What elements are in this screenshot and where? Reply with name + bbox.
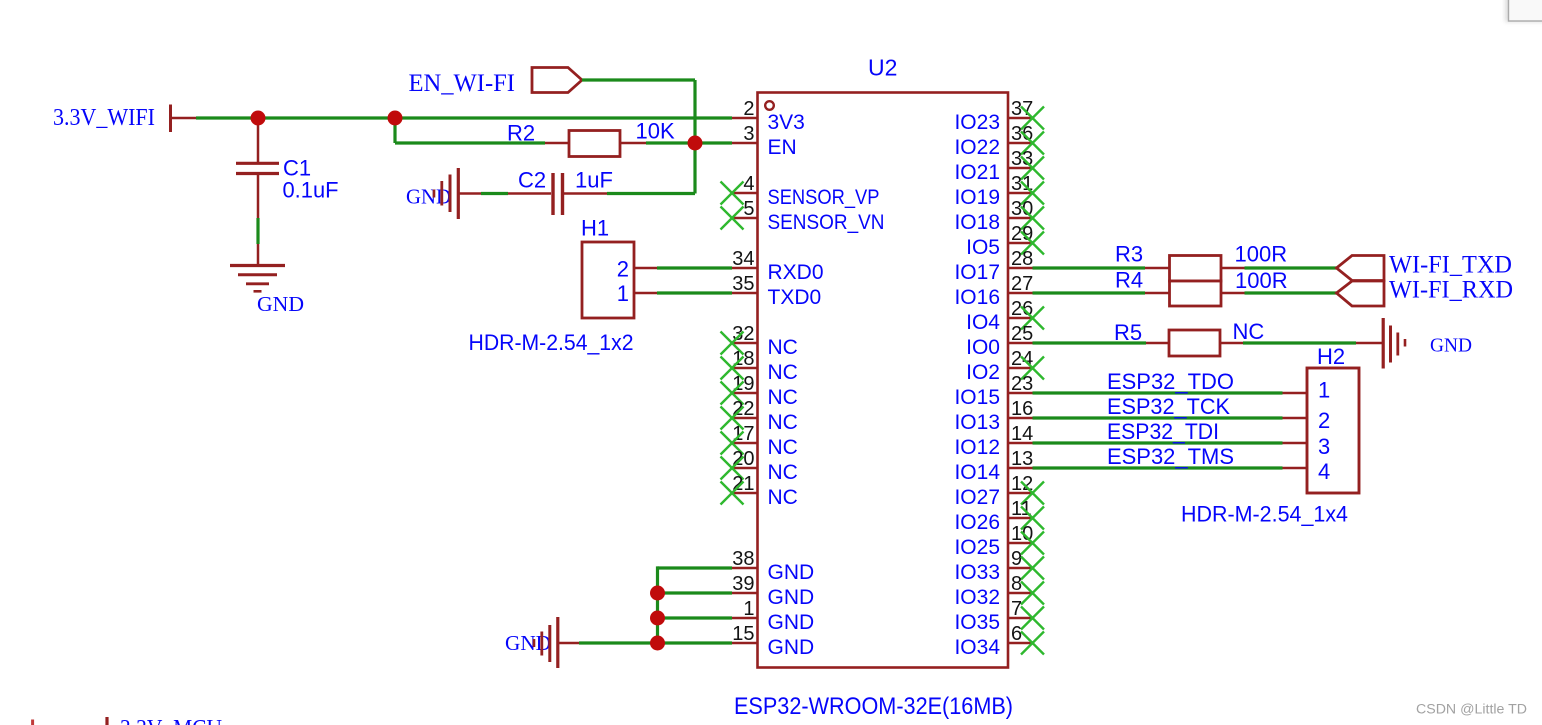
port WI-FI_TXD <box>1337 251 1513 280</box>
svg-text:NC: NC <box>768 486 798 509</box>
junction at R2 tap <box>388 111 403 126</box>
svg-text:22: 22 <box>732 398 754 420</box>
resistor R4 <box>1170 281 1222 306</box>
IC U2 ESP32-WROOM-32E body <box>758 93 1009 668</box>
wire U2 to H2 net ESP32_TDI <box>1033 441 1308 444</box>
wire R3 to port WI-FI_TXD <box>1221 267 1337 270</box>
svg-text:IO33: IO33 <box>954 561 1000 584</box>
U2 pin 21 (NC) left <box>721 473 798 509</box>
U2 pin 32 (NC) left <box>721 323 798 359</box>
svg-text:WI-FI_RXD: WI-FI_RXD <box>1389 276 1513 303</box>
svg-text:ESP32_TCK: ESP32_TCK <box>1107 394 1230 419</box>
svg-text:ESP32-WROOM-32E(16MB): ESP32-WROOM-32E(16MB) <box>734 693 1013 720</box>
svg-text:R4: R4 <box>1115 268 1143 293</box>
svg-text:GND: GND <box>768 586 815 609</box>
U2 pin 30 (IO18) right <box>954 198 1044 234</box>
U2 pin 13 (IO14) right <box>954 448 1033 484</box>
svg-text:ESP32_TDO: ESP32_TDO <box>1107 369 1234 394</box>
U2 pin 15 (GND) left <box>732 623 814 659</box>
U2 pin 6 (IO34) right <box>954 623 1044 659</box>
U2 pin 34 (RXD0) left <box>732 248 824 284</box>
wire EN_WI-FI to EN node <box>582 80 695 143</box>
U2 pin 3 (EN) left <box>732 123 797 159</box>
U2 pin 28 (IO17) right <box>954 248 1033 284</box>
U2 pin 8 (IO32) right <box>954 573 1044 609</box>
junction GND bus pin15 <box>650 636 665 651</box>
U2 pin 16 (IO13) right <box>954 398 1033 434</box>
svg-text:TXD0: TXD0 <box>768 286 822 309</box>
port EN_WI-FI <box>409 68 583 98</box>
svg-text:CSDN @Little TD: CSDN @Little TD <box>1416 702 1527 717</box>
svg-text:HDR-M-2.54_1x4: HDR-M-2.54_1x4 <box>1181 502 1348 527</box>
svg-text:10K: 10K <box>636 119 675 144</box>
svg-text:GND: GND <box>768 611 815 634</box>
junction GND bus pin39 <box>650 586 665 601</box>
port WI-FI_RXD <box>1337 276 1514 306</box>
wire H1 pin1 to U2 TXD0 <box>634 292 732 295</box>
U2 pin 11 (IO26) right <box>954 498 1044 534</box>
svg-text:39: 39 <box>732 573 754 595</box>
U2 pin 25 (IO0) right <box>966 323 1033 359</box>
svg-text:9: 9 <box>1011 548 1022 570</box>
svg-text:6: 6 <box>1011 623 1022 645</box>
wire U2 to H2 net ESP32_TCK <box>1033 416 1308 419</box>
wire 3.3V_WIFI rail to U2 pin 2 <box>196 116 732 119</box>
svg-text:IO26: IO26 <box>954 511 1000 534</box>
U2 pin 36 (IO22) right <box>954 123 1044 159</box>
svg-text:0.1uF: 0.1uF <box>283 178 339 203</box>
svg-text:1: 1 <box>743 598 754 620</box>
wire C1 upper lead <box>257 122 260 163</box>
svg-text:IO22: IO22 <box>954 136 1000 159</box>
U2 pin 14 (IO12) right <box>954 423 1033 459</box>
svg-text:20: 20 <box>732 448 754 470</box>
U2 pin 19 (NC) left <box>721 373 798 409</box>
svg-text:27: 27 <box>1011 273 1033 295</box>
svg-text:RXD0: RXD0 <box>768 261 824 284</box>
svg-text:28: 28 <box>1011 248 1033 270</box>
svg-text:R3: R3 <box>1115 242 1143 267</box>
svg-text:1: 1 <box>1318 378 1330 403</box>
U2 pin 20 (NC) left <box>721 448 798 484</box>
wire U2 pin28 to R3 <box>1033 266 1170 269</box>
wire C1 to ground <box>257 175 260 265</box>
junction at C1 tap <box>251 111 266 126</box>
svg-text:IO14: IO14 <box>954 461 1000 484</box>
svg-text:C2: C2 <box>518 168 546 193</box>
svg-text:GND: GND <box>768 561 815 584</box>
U2 pin 18 (NC) left <box>721 348 798 384</box>
resistor R3 <box>1170 256 1222 282</box>
U2 pin 38 (GND) left <box>732 548 814 584</box>
wire U2 to H2 net ESP32_TDO <box>1033 391 1308 394</box>
svg-text:EN_WI-FI: EN_WI-FI <box>409 70 516 97</box>
wire GND bus vertical <box>656 566 659 643</box>
resistor R2 <box>569 131 620 157</box>
svg-text:16: 16 <box>1011 398 1033 420</box>
svg-text:3.3V_MCU: 3.3V_MCU <box>120 716 222 725</box>
junction EN node <box>688 136 703 151</box>
svg-text:7: 7 <box>1011 598 1022 620</box>
svg-text:15: 15 <box>732 623 754 645</box>
wire R5 to ground <box>1220 342 1382 345</box>
svg-text:2: 2 <box>743 98 754 120</box>
wire EN node down to C2 <box>564 143 695 194</box>
U2 pin 35 (TXD0) left <box>732 273 821 309</box>
svg-text:R5: R5 <box>1114 320 1142 345</box>
capacitor C2 <box>553 173 563 215</box>
svg-text:IO21: IO21 <box>954 161 1000 184</box>
svg-text:3V3: 3V3 <box>768 111 805 134</box>
svg-text:GND: GND <box>505 631 551 655</box>
svg-text:SENSOR_VN: SENSOR_VN <box>768 211 885 234</box>
svg-text:19: 19 <box>732 373 754 395</box>
svg-text:35: 35 <box>732 273 754 295</box>
svg-text:100R: 100R <box>1235 268 1288 293</box>
wire U2 pin39 GND <box>658 591 733 594</box>
svg-text:IO15: IO15 <box>954 386 1000 409</box>
svg-text:5: 5 <box>743 198 754 220</box>
svg-text:IO18: IO18 <box>954 211 1000 234</box>
svg-text:GND: GND <box>768 636 815 659</box>
wire H1 pin2 to U2 RXD0 <box>634 267 732 270</box>
wire R2 right to EN node <box>620 142 732 145</box>
svg-text:8: 8 <box>1011 573 1022 595</box>
U2 pin 31 (IO19) right <box>954 173 1044 209</box>
wire R4 to port WI-FI_RXD <box>1221 292 1337 295</box>
U2 pin 23 (IO15) right <box>954 373 1033 409</box>
wire drop to R2 row <box>393 118 396 143</box>
svg-text:IO13: IO13 <box>954 411 1000 434</box>
svg-text:NC: NC <box>768 436 798 459</box>
wire U2 pin27 to R4 <box>1033 291 1170 294</box>
svg-text:3: 3 <box>1318 434 1330 459</box>
ground GND left of C2 <box>406 168 458 219</box>
U2 pin 17 (NC) left <box>721 423 798 459</box>
ground GND below C1 <box>230 266 304 317</box>
svg-text:38: 38 <box>732 548 754 570</box>
svg-text:IO0: IO0 <box>966 336 1000 359</box>
svg-text:ESP32_TDI: ESP32_TDI <box>1107 419 1219 444</box>
U2 pin 7 (IO35) right <box>954 598 1044 634</box>
wire U2 pin15 GND <box>559 641 733 644</box>
svg-text:13: 13 <box>1011 448 1033 470</box>
wire U2 pin38 GND <box>658 566 733 569</box>
svg-text:14: 14 <box>1011 423 1033 445</box>
wire R2 left <box>395 141 569 144</box>
U2 pin 39 (GND) left <box>732 573 814 609</box>
svg-text:1uF: 1uF <box>575 168 613 193</box>
svg-text:H2: H2 <box>1317 344 1345 369</box>
wire U2 pin1 GND <box>658 616 733 619</box>
svg-text:IO5: IO5 <box>966 236 1000 259</box>
connector H2 <box>1307 368 1359 493</box>
svg-text:IO32: IO32 <box>954 586 1000 609</box>
svg-text:17: 17 <box>732 423 754 445</box>
U2 pin 10 (IO25) right <box>954 523 1044 559</box>
svg-text:IO12: IO12 <box>954 436 1000 459</box>
svg-text:11: 11 <box>1011 498 1032 520</box>
U2 pin 22 (NC) left <box>721 398 798 434</box>
svg-text:1: 1 <box>617 281 629 306</box>
U2 pin 4 (SENSOR_VP) left <box>721 173 880 209</box>
svg-text:32: 32 <box>732 323 754 345</box>
U2 pin 27 (IO16) right <box>954 273 1033 309</box>
svg-text:NC: NC <box>768 461 798 484</box>
wire U2 pin25 to R5 <box>1033 341 1170 344</box>
svg-text:NC: NC <box>768 361 798 384</box>
svg-text:NC: NC <box>768 386 798 409</box>
ground GND right of R5 <box>1383 318 1472 369</box>
svg-text:2: 2 <box>1318 408 1330 433</box>
svg-text:GND: GND <box>257 292 304 316</box>
svg-text:IO2: IO2 <box>966 361 1000 384</box>
U2 pin 33 (IO21) right <box>954 148 1044 184</box>
svg-text:18: 18 <box>732 348 754 370</box>
junction GND bus pin1 <box>650 611 665 626</box>
U2 pin 12 (IO27) right <box>954 473 1044 509</box>
svg-text:IO17: IO17 <box>954 261 1000 284</box>
svg-text:GND: GND <box>406 185 451 209</box>
U2 pin 24 (IO2) right <box>966 348 1044 384</box>
svg-text:25: 25 <box>1011 323 1033 345</box>
svg-text:34: 34 <box>732 248 754 270</box>
ground GND bottom-left <box>505 617 558 668</box>
wire U2 to H2 net ESP32_TMS <box>1033 466 1308 469</box>
svg-text:21: 21 <box>732 473 754 495</box>
svg-text:IO35: IO35 <box>954 611 1000 634</box>
U2 pin 9 (IO33) right <box>954 548 1044 584</box>
U2 pin 2 (3V3) left <box>732 98 805 134</box>
capacitor C1 <box>236 163 279 173</box>
U2 pin 29 (IO5) right <box>966 223 1044 259</box>
resistor R5 <box>1169 330 1220 356</box>
U2 pin 26 (IO4) right <box>966 298 1044 334</box>
wire C2 left to ground <box>460 192 552 195</box>
svg-text:HDR-M-2.54_1x2: HDR-M-2.54_1x2 <box>469 330 634 355</box>
svg-text:3: 3 <box>743 123 754 145</box>
svg-text:100R: 100R <box>1235 242 1288 267</box>
svg-text:4: 4 <box>743 173 754 195</box>
connector H1 <box>582 242 634 318</box>
svg-text:2: 2 <box>617 256 629 281</box>
svg-text:GND: GND <box>1430 335 1472 357</box>
svg-text:3.3V_WIFI: 3.3V_WIFI <box>53 105 155 131</box>
svg-text:H1: H1 <box>581 216 609 241</box>
svg-text:SENSOR_VP: SENSOR_VP <box>768 186 880 209</box>
svg-text:R2: R2 <box>507 121 535 146</box>
svg-text:IO19: IO19 <box>954 186 1000 209</box>
svg-text:NC: NC <box>768 411 798 434</box>
power port 3.3V_WIFI <box>53 105 196 133</box>
svg-text:IO16: IO16 <box>954 286 1000 309</box>
svg-text:IO27: IO27 <box>954 486 1000 509</box>
svg-text:IO34: IO34 <box>954 636 1000 659</box>
power port 3.3V_MCU partial at bottom edge <box>33 716 222 725</box>
svg-text:U2: U2 <box>868 55 897 81</box>
svg-text:WI-FI_TXD: WI-FI_TXD <box>1389 251 1512 278</box>
svg-text:ESP32_TMS: ESP32_TMS <box>1107 444 1234 469</box>
U2 pin 5 (SENSOR_VN) left <box>721 198 885 234</box>
svg-text:NC: NC <box>768 336 798 359</box>
U2 pin 1 (GND) left <box>732 598 814 634</box>
svg-text:IO25: IO25 <box>954 536 1000 559</box>
browser tooltip box top-right <box>1505 0 1542 22</box>
svg-text:EN: EN <box>768 136 797 159</box>
svg-text:4: 4 <box>1318 459 1330 484</box>
svg-text:23: 23 <box>1011 373 1033 395</box>
svg-text:IO4: IO4 <box>966 311 1000 334</box>
svg-text:NC: NC <box>1233 319 1265 344</box>
svg-text:IO23: IO23 <box>954 111 1000 134</box>
U2 pin 37 (IO23) right <box>954 98 1044 134</box>
